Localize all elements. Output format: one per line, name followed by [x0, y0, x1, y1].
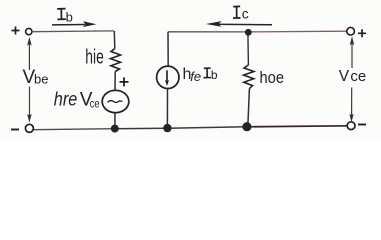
svg-text:c: c	[242, 6, 249, 22]
svg-text:hoe: hoe	[260, 69, 285, 87]
svg-text:hie: hie	[85, 47, 104, 69]
svg-text:ce: ce	[90, 96, 100, 110]
svg-text:b: b	[66, 9, 73, 24]
svg-text:V: V	[339, 68, 350, 85]
svg-text:fe: fe	[190, 69, 201, 84]
svg-text:ce: ce	[350, 68, 366, 85]
svg-text:hre: hre	[54, 90, 78, 111]
svg-text:be: be	[34, 72, 48, 87]
svg-text:b: b	[211, 68, 218, 82]
